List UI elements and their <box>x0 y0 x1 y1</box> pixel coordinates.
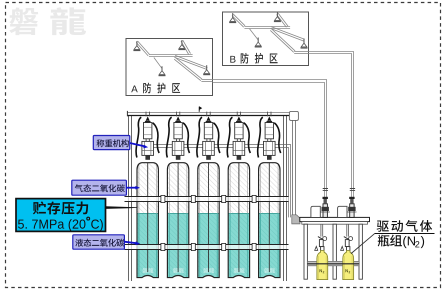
bottle clamp rail <box>307 261 359 265</box>
driving gas table top <box>300 217 370 224</box>
cylinder 2 dip tube <box>177 163 179 272</box>
nozzle B1 <box>229 13 236 22</box>
nozzle B3 <box>255 38 262 47</box>
N2 pilot cylinder 1 <box>315 224 328 279</box>
CO2 collecting manifold <box>127 111 299 117</box>
cylinder rack right post <box>284 116 287 282</box>
cylinder 2 brand watermark <box>173 268 184 273</box>
N2 pilot cylinder 2 <box>341 224 354 279</box>
CO2 cylinder 4 <box>228 160 249 280</box>
pipe zone A supply to selector valve 1 <box>213 80 327 198</box>
cylinder 1 valve & weighing assembly <box>136 116 159 159</box>
nozzle B4 <box>301 39 308 48</box>
nozzle A4 <box>203 65 210 74</box>
CO2 cylinder 1 <box>137 160 158 280</box>
rack upper clamp rail <box>125 195 289 202</box>
zone A piping <box>136 40 212 81</box>
manifold vent flag <box>199 106 202 112</box>
CO2 cylinder 3 <box>198 160 219 280</box>
cylinder rack left post <box>129 116 132 282</box>
pipe zone B supply to selector valve 2 <box>309 52 354 198</box>
cylinder 3 brand watermark <box>203 268 214 273</box>
bottle clamp rail front bar <box>307 263 359 265</box>
label: weighing mechanism 称重机构 <box>93 136 148 150</box>
cylinder 1 brand watermark <box>142 268 153 273</box>
cylinder 5 valve & weighing assembly <box>258 116 281 159</box>
selector valve 2 <box>338 197 357 218</box>
manifold right elbow <box>289 111 298 120</box>
selector valve 1 <box>311 197 330 218</box>
cylinder 5 brand watermark <box>264 268 275 273</box>
cylinder 5 dip tube <box>268 163 270 272</box>
cylinder 3 valve & weighing assembly <box>197 116 220 159</box>
selector valve pipe flanges <box>323 189 355 191</box>
rack lower clamp rail <box>125 243 289 250</box>
label: liquid CO2 液态二氧化碳 <box>73 235 140 249</box>
nozzle A1 <box>133 41 140 50</box>
nozzle A2 <box>178 40 185 49</box>
nozzle A3 <box>159 66 166 75</box>
N2 pilot line across cylinder valves <box>143 145 291 218</box>
down pipe bottom elbow (grey) <box>292 215 300 224</box>
cylinder 4 dip tube <box>238 163 240 272</box>
CO2 cylinder 2 <box>167 160 188 280</box>
zone B label B防护区 <box>230 53 277 64</box>
manifold down pipe <box>293 120 296 215</box>
CO2 cylinder 5 <box>259 160 280 280</box>
zone B box <box>223 12 309 66</box>
cylinder 4 valve & weighing assembly <box>227 116 250 159</box>
table legs <box>304 224 362 279</box>
watermark 磐龍 top-left <box>9 7 86 35</box>
zone A label A防护区 <box>131 83 180 94</box>
cylinder 1 dip tube <box>147 163 149 272</box>
nozzle B2 <box>274 12 281 21</box>
zone B piping <box>232 13 309 53</box>
zone A box <box>126 39 213 96</box>
cylinder 2 valve & weighing assembly <box>166 116 189 159</box>
label: driving gas bottle group 驱动气体瓶组(N2) <box>351 220 435 254</box>
cylinder 3 dip tube <box>208 163 210 272</box>
cylinder 4 brand watermark <box>234 268 245 273</box>
label: storage pressure box 贮存压力 5.7MPa(20C) <box>16 199 138 232</box>
label: gaseous CO2 气态二氧化碳 <box>72 180 140 195</box>
